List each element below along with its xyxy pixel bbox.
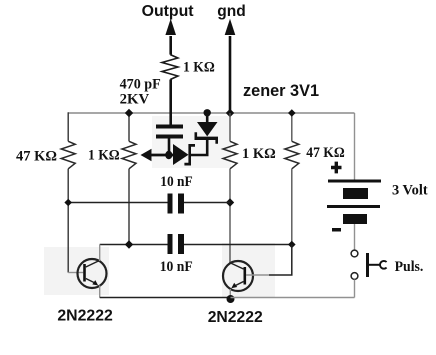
wire 1K-right rail lower <box>229 169 231 263</box>
node dot lineB/1K-left <box>125 240 133 248</box>
svg-text:10 nF: 10 nF <box>160 174 192 190</box>
resistor 1K left (pot) <box>122 141 136 169</box>
capacitor C2 10nF plate2 <box>178 234 184 254</box>
wire Q1 collector stub <box>99 245 101 262</box>
svg-text:470 pF: 470 pF <box>120 76 161 92</box>
node dot bus/1K-left <box>125 109 133 117</box>
battery block 2 <box>343 214 367 224</box>
wiper arrow head <box>141 149 152 162</box>
resistor 1K output <box>162 55 178 80</box>
wire cap to wiper node <box>168 139 171 156</box>
wire 1K-right rail upper <box>229 113 231 141</box>
diode D1 triangle <box>173 144 189 165</box>
svg-text:2N2222: 2N2222 <box>57 308 113 325</box>
wire 1K-left rail lower <box>128 169 130 245</box>
svg-text:1 KΩ: 1 KΩ <box>88 148 120 164</box>
wire left rail lower <box>67 169 69 273</box>
transistor Q1 emitter arrowhead <box>92 280 98 285</box>
wire line B right <box>184 244 292 246</box>
wire D1 to zener <box>190 140 207 155</box>
zener D2 triangle <box>197 122 218 136</box>
wire gnd stem <box>229 36 232 113</box>
wire bottom left <box>100 297 231 299</box>
wire top supply bus <box>68 112 354 114</box>
pushbutton bar <box>366 253 369 277</box>
wire bottom right <box>231 297 355 299</box>
svg-text:47 KΩ: 47 KΩ <box>306 145 344 161</box>
transistor Q1 emitter diagonal <box>86 279 95 284</box>
transistor Q2 emitter diagonal <box>235 282 244 287</box>
svg-text:47 KΩ: 47 KΩ <box>16 148 57 164</box>
wire battery to switch <box>354 224 356 250</box>
wire Q2 base black <box>269 245 292 276</box>
node dot lineA/left-rail <box>64 199 72 207</box>
pushbutton stem <box>369 264 380 266</box>
svg-text:Puls.: Puls. <box>395 259 424 275</box>
battery plate 2 <box>327 205 380 208</box>
capacitor 470pF plate2 <box>156 135 183 139</box>
switch contact 2 <box>351 273 358 280</box>
wire 47K-right rail upper <box>291 113 293 141</box>
transistor Q1 circle <box>78 259 107 288</box>
node dot bus/zener <box>204 109 211 116</box>
wire 47K-right rail lower <box>291 169 293 245</box>
svg-text:1 KΩ: 1 KΩ <box>242 146 276 162</box>
wire zener anode <box>206 113 209 123</box>
transistor Q2 base bar <box>244 267 247 285</box>
svg-text:2KV: 2KV <box>120 92 150 108</box>
wire Q1 base <box>68 272 83 274</box>
node dot bus/gnd <box>226 109 234 117</box>
wire Q1 emitter stub <box>99 286 101 298</box>
zener D2 cathode bar <box>195 132 219 144</box>
wire wiper <box>150 154 174 157</box>
resistor 47K right <box>285 141 299 169</box>
wire switch to bottom <box>354 280 356 298</box>
pushbutton c <box>380 261 387 269</box>
battery plate 1 <box>328 180 381 183</box>
svg-text:2N2222: 2N2222 <box>208 309 263 326</box>
wire left rail upper <box>67 112 69 141</box>
svg-text:1 KΩ: 1 KΩ <box>183 59 215 75</box>
gnd arrow <box>225 19 236 35</box>
node dot lineB/47K-right <box>288 241 296 249</box>
wire line B left <box>100 244 168 246</box>
capacitor C1 10nF plate1 <box>168 194 173 214</box>
capacitor C1 10nF plate2 <box>178 194 184 214</box>
svg-text:gnd: gnd <box>217 3 246 20</box>
svg-text:10 nF: 10 nF <box>160 259 193 275</box>
switch contact 1 <box>351 250 358 257</box>
node dot bus/47K-right <box>288 109 296 117</box>
transistor Q2 emitter arrowhead <box>231 283 237 288</box>
svg-text:zener 3V1: zener 3V1 <box>243 81 319 100</box>
resistor 1K right <box>223 141 237 169</box>
wire 1K-left rail upper <box>128 113 130 141</box>
wire battery rail upper <box>354 113 356 180</box>
battery plus sign <box>331 162 342 174</box>
resistor 47K left <box>61 141 75 169</box>
svg-text:Output: Output <box>142 3 195 20</box>
battery minus sign <box>332 228 341 232</box>
output arrow <box>165 19 176 35</box>
node dot bottom <box>227 295 235 303</box>
battery block 1 <box>343 188 368 199</box>
transistor Q2 collector diagonal <box>230 263 244 270</box>
transistor Q1 collector diagonal <box>86 260 101 267</box>
wire line A right <box>184 202 230 204</box>
wire Q2 base gray <box>246 274 269 276</box>
diode D1 cathode bar <box>184 144 195 166</box>
wire output to cap <box>169 80 172 125</box>
transistor Q1 base bar <box>83 264 86 282</box>
node dot lineA/right <box>226 198 234 206</box>
transistor Q2 circle <box>223 261 253 291</box>
capacitor C2 10nF plate1 <box>168 234 173 254</box>
capacitor 470pF plate1 <box>156 125 183 129</box>
wire Q2 emitter stub <box>229 289 231 297</box>
node dot wiper junction <box>165 151 172 159</box>
svg-text:3 Volt: 3 Volt <box>392 183 428 199</box>
wire output stem <box>169 36 172 55</box>
wire line A left <box>68 202 168 204</box>
